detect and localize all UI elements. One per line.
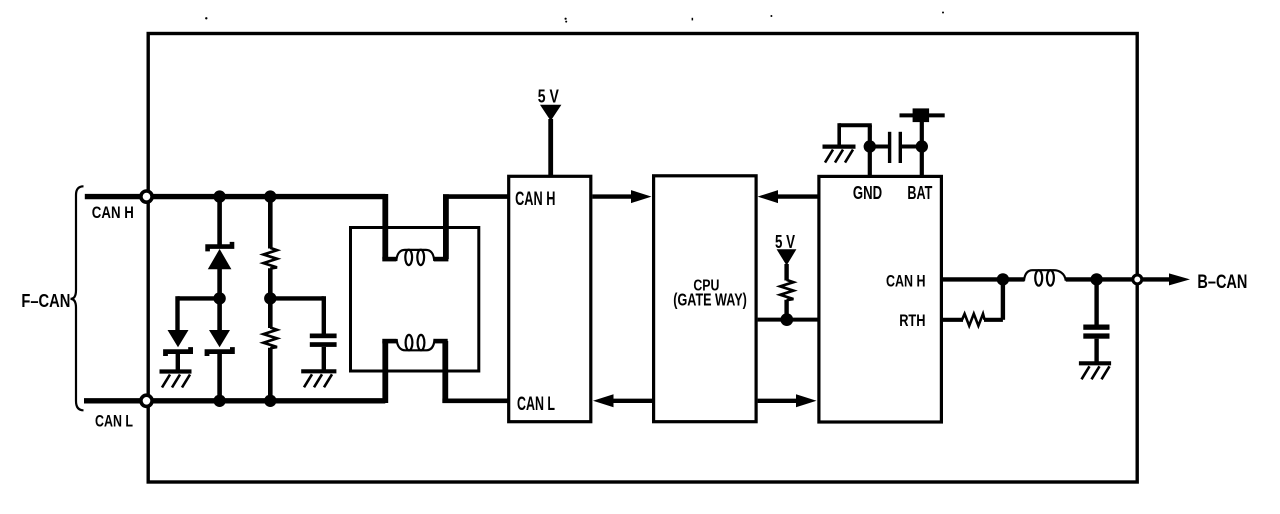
wire C2 to ground <box>1094 339 1098 362</box>
capacitor C3 wire left <box>870 145 888 149</box>
capacitor C3 wire right <box>902 145 922 149</box>
zener D3 cathode bar <box>207 347 232 356</box>
inductor L2 wire right <box>1066 277 1141 281</box>
svg-text:CAN H: CAN H <box>886 272 926 291</box>
node dot C2 <box>1090 273 1102 285</box>
brace for F-CAN <box>71 186 84 410</box>
ground G3 <box>823 147 856 163</box>
node dot pull-up <box>780 313 793 326</box>
resistor R2 zigzag <box>264 328 278 349</box>
wire CANH into choke (down) <box>382 194 388 259</box>
inductor L1b feet <box>382 339 396 344</box>
BAT connector block <box>913 108 930 122</box>
capacitor C1 plates <box>310 334 337 339</box>
arrow U3 to CPU (CANH) <box>775 194 818 198</box>
junction dot CANL-R2 <box>264 395 276 407</box>
transceiver U1 box <box>509 176 591 421</box>
junction dot CANH-D1 <box>213 190 225 202</box>
ground G4 <box>1079 363 1111 379</box>
wire U3 CANH out <box>941 277 1003 281</box>
diode D2 triangle (left, down) <box>168 330 189 347</box>
diode D2 cathode bar <box>166 347 191 356</box>
zener D1 triangle <box>208 249 232 269</box>
arrow CPU to U1 (CANL) <box>611 399 652 403</box>
wire C2 <box>1094 279 1098 325</box>
junction dot CANH-R1 <box>264 190 276 202</box>
choke box outline <box>351 228 479 372</box>
inductor L1a coil <box>396 250 434 261</box>
svg-text:F–CAN: F–CAN <box>21 291 70 311</box>
node dot on resistor column <box>264 292 276 304</box>
wire CANL into choke (up) <box>382 341 388 403</box>
zener D1 cathode bar <box>208 242 232 252</box>
wire D3 to CAN L <box>217 352 222 403</box>
svg-text:CAN L: CAN L <box>517 394 555 415</box>
node dot GND <box>864 140 876 152</box>
wire D1 to node <box>217 269 222 331</box>
wire C1 to ground <box>322 347 326 370</box>
wire stub to capacitor C1 <box>270 296 324 300</box>
BAT pin wire <box>920 115 924 176</box>
svg-text:CAN H: CAN H <box>515 189 555 210</box>
zener D1 column wire (top) <box>217 194 222 245</box>
svg-text:5 V: 5 V <box>775 232 795 252</box>
svg-text:BAT: BAT <box>907 183 932 203</box>
speck marks <box>205 12 944 23</box>
resistor R3 zigzag <box>780 280 793 300</box>
wire choke to U1 CANL <box>442 341 448 403</box>
arrow CPU to U3 (CANL) <box>758 399 799 403</box>
inductor L2 wire left <box>1003 277 1025 281</box>
U3 box <box>819 176 942 422</box>
CPU box <box>654 176 757 422</box>
capacitor C2 plates <box>1083 325 1109 330</box>
border frame of ECU <box>148 34 1137 483</box>
svg-text:B–CAN: B–CAN <box>1197 271 1247 293</box>
wire CAN L bus (left) <box>84 398 385 403</box>
junction dot CANL-D3 <box>213 395 225 407</box>
inductor L1b coil <box>397 339 435 350</box>
inductor L2 coil <box>1024 270 1066 281</box>
node circle CANL (open) <box>141 395 152 406</box>
resistor R1 zigzag <box>264 248 278 269</box>
node dot BAT <box>916 140 928 152</box>
inductor L1a feet <box>382 257 396 262</box>
node dot CANH out <box>997 273 1009 285</box>
svg-text:GND: GND <box>853 183 882 203</box>
arrow U1 to CPU (CANH) <box>592 194 634 198</box>
svg-text:CAN H: CAN H <box>92 204 134 222</box>
wire CAN H bus (left) <box>85 194 386 199</box>
zener D3 triangle (mid, down) <box>209 330 230 347</box>
wire R2 to CAN L <box>268 348 273 403</box>
ground G2 <box>301 371 336 387</box>
arrow B-CAN out <box>1143 277 1170 281</box>
svg-text:CAN L: CAN L <box>95 413 133 431</box>
resistor R4 zigzag <box>962 314 985 326</box>
wire D2 to ground <box>176 352 180 370</box>
BAT connector bar <box>900 113 945 117</box>
node circle B-CAN (open) <box>1133 275 1142 284</box>
svg-text:RTH: RTH <box>899 312 925 330</box>
wire stub to left diode <box>178 296 220 300</box>
ground G1 <box>160 372 192 388</box>
GND pin wire <box>868 125 872 176</box>
wire RTH <box>941 318 963 322</box>
wire R1-R2 <box>268 268 273 328</box>
svg-text:5 V: 5 V <box>538 87 559 107</box>
svg-text:(GATE WAY): (GATE WAY) <box>673 289 747 309</box>
capacitor C3 plates <box>888 132 891 163</box>
node circle CANH (open) <box>141 191 152 202</box>
node dot on zener column <box>213 292 225 304</box>
wire choke to U1 CANH <box>443 194 449 259</box>
wire CPU to U3 (mid) <box>758 318 819 322</box>
resistor R1 column wire top <box>268 194 273 249</box>
